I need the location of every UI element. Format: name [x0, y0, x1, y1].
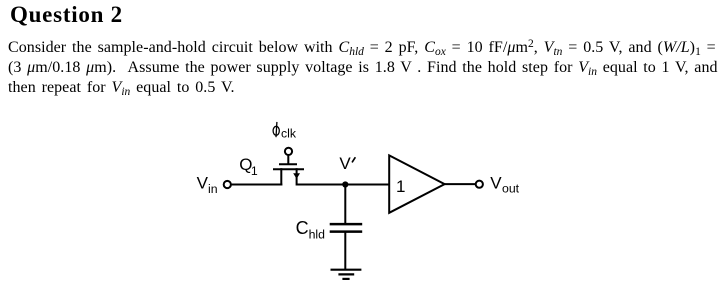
svg-text:in: in [208, 182, 218, 196]
capacitor Chld [330, 224, 363, 232]
wire op-amp output [445, 183, 476, 185]
svg-text:1: 1 [396, 177, 405, 196]
wire Q1 drain to node V' [297, 184, 390, 186]
svg-text:out: out [502, 181, 520, 195]
svg-text:V: V [197, 174, 209, 193]
svg-text:1: 1 [251, 164, 258, 178]
wire Vin to Q1 source [231, 184, 282, 186]
terminal phi_clk [285, 148, 292, 155]
svg-text:hld: hld [309, 227, 326, 241]
svg-text:V: V [339, 154, 351, 173]
transistor Q1 [273, 155, 304, 185]
wire capacitor to ground [344, 232, 346, 270]
clock phi_clk label [273, 122, 279, 137]
transistor Q1 source arrow [293, 173, 300, 179]
svg-text:clk: clk [281, 126, 297, 140]
terminal Vin [224, 181, 231, 188]
svg-text:V: V [490, 173, 502, 192]
terminal Vout [476, 181, 483, 188]
ground [331, 270, 362, 279]
node V' junction dot [342, 181, 348, 187]
op-amp U1 buffer [389, 155, 444, 212]
wire node V' to capacitor [344, 185, 346, 224]
svg-text:C: C [296, 218, 309, 238]
